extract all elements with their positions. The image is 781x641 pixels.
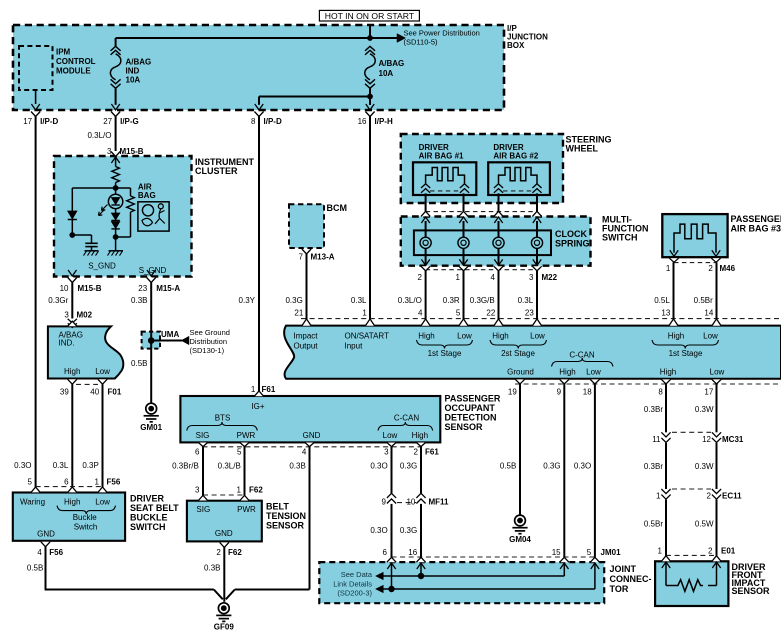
- svg-text:0.3W: 0.3W: [695, 462, 714, 471]
- svg-text:Ground: Ground: [507, 367, 534, 376]
- svg-text:1st Stage: 1st Stage: [669, 349, 703, 358]
- svg-text:EC11: EC11: [722, 491, 742, 500]
- cluster LED air bag lamp: [99, 188, 123, 216]
- steering-MFS inline connector: [421, 211, 542, 223]
- svg-text:0.5Br: 0.5Br: [644, 520, 663, 529]
- svg-text:High: High: [492, 331, 508, 340]
- svg-text:8: 8: [658, 388, 663, 397]
- svg-text:17: 17: [704, 388, 713, 397]
- svg-text:1: 1: [656, 491, 661, 500]
- svg-text:IPM: IPM: [56, 48, 71, 57]
- I/P junction box: [13, 24, 548, 110]
- svg-text:HOT IN ON OR START: HOT IN ON OR START: [325, 11, 415, 21]
- wire 0.5B UMA to GM01: [131, 283, 151, 404]
- svg-text:3: 3: [195, 485, 200, 494]
- svg-text:2: 2: [418, 273, 423, 282]
- svg-text:13: 13: [661, 309, 670, 318]
- svg-text:0.3B: 0.3B: [289, 462, 305, 471]
- SRSCM bottom pin 18: [583, 379, 600, 396]
- svg-text:BOX: BOX: [507, 41, 525, 50]
- junction dot at fuse2 top: [367, 35, 373, 41]
- svg-text:GF09: GF09: [214, 623, 235, 632]
- svg-text:SPRING: SPRING: [555, 239, 590, 249]
- svg-text:10A: 10A: [379, 69, 394, 78]
- svg-text:PASSENGER: PASSENGER: [445, 394, 501, 404]
- SRSCM 1st stage High Low: [417, 331, 473, 358]
- svg-text:(SD200-3): (SD200-3): [337, 589, 372, 598]
- svg-text:MF11: MF11: [429, 497, 450, 506]
- connector EC11 pins 1 2: [656, 489, 742, 500]
- SRSCM labels impact output: [294, 331, 319, 350]
- svg-text:2: 2: [707, 491, 712, 500]
- driver front impact sensor: [655, 561, 770, 606]
- SRSCM bottom pin 9: [557, 379, 569, 396]
- svg-text:21: 21: [294, 309, 303, 318]
- connector F62 top pins 3 1: [195, 485, 263, 500]
- svg-text:F62: F62: [249, 485, 263, 494]
- svg-text:See Ground: See Ground: [190, 328, 230, 337]
- svg-text:High: High: [412, 431, 428, 440]
- connector E01 pins 1 2: [658, 547, 736, 568]
- svg-text:ON/SATART: ON/SATART: [345, 331, 390, 340]
- svg-text:IG+: IG+: [251, 402, 264, 411]
- passenger air bag module: [662, 214, 781, 257]
- svg-text:0.3G: 0.3G: [285, 296, 302, 305]
- svg-text:0.3Br/B: 0.3Br/B: [172, 462, 199, 471]
- cluster pin 23 M15-A: [138, 270, 180, 293]
- svg-text:PWR: PWR: [237, 505, 256, 514]
- svg-text:12: 12: [702, 435, 711, 444]
- svg-text:GND: GND: [37, 530, 55, 539]
- svg-text:Buckle: Buckle: [73, 513, 98, 522]
- second S_GND label: [139, 266, 167, 275]
- clock spring wire x425.6: [425, 221, 427, 265]
- svg-text:0.3G/B: 0.3G/B: [470, 296, 495, 305]
- svg-text:1: 1: [95, 477, 100, 486]
- svg-text:A/BAG: A/BAG: [126, 58, 152, 67]
- svg-text:SENSOR: SENSOR: [266, 521, 305, 531]
- clock spring box: [414, 229, 590, 255]
- svg-text:BTS: BTS: [215, 414, 231, 423]
- SRSCM top connector line: [301, 318, 781, 320]
- wire 0.3Y pin8 to PODS IG+: [239, 117, 259, 392]
- svg-text:BUCKLE: BUCKLE: [130, 513, 168, 523]
- svg-text:IND.: IND.: [59, 339, 75, 348]
- svg-text:0.3L: 0.3L: [53, 461, 69, 470]
- svg-text:0.5B: 0.5B: [27, 564, 43, 573]
- buckle GND pin 4 F56: [37, 542, 63, 557]
- wire 0.3L M22 to SRSCM pin23: [518, 271, 537, 319]
- svg-text:M15-A: M15-A: [156, 284, 180, 293]
- svg-text:IND: IND: [126, 67, 140, 76]
- joint connector internal C-CAN Low link: [376, 564, 595, 593]
- driver air bag #2 squib box: [488, 143, 550, 195]
- svg-text:M22: M22: [542, 273, 558, 282]
- SRSCM top pin 22: [486, 309, 503, 326]
- connector M46 pins 1 2: [666, 258, 736, 273]
- svg-text:High: High: [559, 367, 575, 376]
- svg-text:0.3L/O: 0.3L/O: [87, 131, 111, 140]
- joint connector internal C-CAN High link: [376, 564, 565, 580]
- svg-text:1: 1: [456, 273, 461, 282]
- svg-text:1: 1: [658, 547, 663, 556]
- multi-function switch: [401, 215, 649, 266]
- cluster left branch diode: [68, 188, 116, 235]
- pin 16 I/P-H: [358, 104, 393, 126]
- svg-text:BAG: BAG: [138, 191, 156, 200]
- wire 0.3B BTS to GF09: [204, 547, 224, 602]
- connector 3 M02: [64, 310, 92, 327]
- connector M22 pins 2 1 4 3: [418, 259, 558, 282]
- wire 0.5Br M46 to SRSCM pin14: [694, 262, 717, 319]
- clock spring wire x498.5: [498, 221, 500, 265]
- UMA ground connector: [142, 328, 230, 355]
- clock spring wire x537: [536, 221, 538, 265]
- wire 0.3Br MC31 to EC11: [644, 443, 666, 489]
- svg-text:(SD130-1): (SD130-1): [190, 346, 225, 355]
- wire 0.3R M22 to SRSCM pin5: [443, 271, 464, 319]
- JM01 pin 16 entry: [416, 557, 425, 569]
- svg-text:1: 1: [666, 264, 671, 273]
- svg-text:3: 3: [64, 310, 69, 319]
- svg-text:6: 6: [383, 548, 388, 557]
- svg-text:S_GND: S_GND: [88, 261, 116, 270]
- SRSCM right 1st stage High Low: [652, 331, 719, 358]
- svg-text:MC31: MC31: [722, 435, 744, 444]
- wire 0.3L/O pin27 to cluster: [87, 117, 115, 152]
- svg-text:Low: Low: [383, 431, 398, 440]
- svg-text:High: High: [418, 331, 434, 340]
- cluster capacitor to S_GND: [72, 235, 98, 256]
- ground GF09: [214, 603, 235, 632]
- svg-text:5: 5: [456, 309, 461, 318]
- svg-text:0.3Br: 0.3Br: [644, 405, 663, 414]
- svg-text:0.3O: 0.3O: [14, 461, 31, 470]
- svg-text:See Power Distribution: See Power Distribution: [404, 29, 480, 38]
- svg-text:0.3L: 0.3L: [351, 296, 367, 305]
- buckle switch brace: [57, 506, 116, 514]
- svg-text:DETECTION: DETECTION: [445, 413, 497, 423]
- wire 0.3Br/B PODS SIG to BTS: [172, 446, 203, 495]
- svg-text:WHEEL: WHEEL: [566, 144, 599, 154]
- pin 27 I/P-G: [103, 104, 139, 126]
- SRSCM top pin 21: [294, 309, 311, 326]
- svg-text:DRIVER: DRIVER: [419, 143, 449, 152]
- svg-text:Switch: Switch: [74, 522, 98, 531]
- passenger occupant detection sensor: [180, 394, 500, 443]
- connector 1 F61 top: [251, 385, 276, 396]
- svg-text:0.3O: 0.3O: [370, 526, 387, 535]
- SRSCM bottom pin 19: [508, 379, 525, 396]
- svg-text:0.3W: 0.3W: [695, 405, 714, 414]
- svg-text:M02: M02: [77, 310, 93, 319]
- connector MC31 pins 11 12: [652, 432, 744, 444]
- svg-text:AIR BAG #3: AIR BAG #3: [731, 224, 781, 234]
- svg-text:C-CAN: C-CAN: [394, 414, 420, 423]
- svg-text:See Data: See Data: [341, 570, 373, 579]
- connector MF11 pins 9 10: [382, 493, 450, 506]
- svg-text:0.3L/B: 0.3L/B: [218, 462, 241, 471]
- svg-text:TENSION: TENSION: [266, 511, 306, 521]
- BCM: [289, 203, 347, 248]
- svg-text:8: 8: [251, 117, 256, 126]
- SRSCM top pin 5: [456, 309, 468, 326]
- wire 0.3O MF11 to JM01 pin6: [370, 504, 391, 557]
- svg-text:TOR: TOR: [610, 584, 629, 594]
- svg-text:9: 9: [557, 388, 562, 397]
- svg-text:3: 3: [529, 273, 534, 282]
- svg-text:Low: Low: [95, 498, 110, 507]
- svg-text:GND: GND: [303, 431, 321, 440]
- svg-text:18: 18: [583, 388, 592, 397]
- cluster resistor top: [112, 157, 120, 188]
- svg-text:JOINT: JOINT: [610, 564, 637, 574]
- svg-text:Waring: Waring: [20, 498, 45, 507]
- wire 0.5Br EC11 to E01: [644, 500, 666, 556]
- svg-text:0.5B: 0.5B: [500, 462, 516, 471]
- svg-text:Input: Input: [345, 341, 364, 350]
- wire 0.3B PODS GND to GF09: [226, 446, 310, 599]
- cluster node dot left: [69, 232, 75, 238]
- svg-text:0.3G: 0.3G: [543, 462, 560, 471]
- svg-text:1: 1: [251, 385, 256, 394]
- HOT IN ON OR START tag: [319, 10, 419, 21]
- wire 0.3W MC31 to EC11: [695, 443, 717, 489]
- svg-text:Distribution: Distribution: [190, 337, 228, 346]
- svg-text:CLOCK: CLOCK: [555, 229, 587, 239]
- wire 0.3L High to buckle: [53, 384, 73, 487]
- svg-text:GND: GND: [215, 529, 233, 538]
- svg-text:E01: E01: [721, 547, 736, 556]
- svg-text:5: 5: [237, 448, 242, 457]
- svg-text:F56: F56: [107, 477, 121, 486]
- svg-text:High: High: [64, 367, 80, 376]
- svg-text:SENSOR: SENSOR: [732, 586, 771, 596]
- svg-text:SEAT BELT: SEAT BELT: [130, 503, 179, 513]
- svg-text:CONNEC-: CONNEC-: [610, 574, 652, 584]
- belt tension sensor: [187, 501, 306, 542]
- svg-text:Impact: Impact: [294, 331, 319, 340]
- svg-text:0.3Br: 0.3Br: [644, 462, 663, 471]
- cluster diode 2: [111, 209, 119, 221]
- svg-text:0.5B: 0.5B: [131, 359, 147, 368]
- wire 0.5W EC11 to E01: [695, 500, 717, 556]
- svg-text:UMA: UMA: [161, 330, 179, 339]
- svg-text:Low: Low: [95, 367, 110, 376]
- A/BAG IND block: [48, 326, 123, 378]
- JM01 connector line: [392, 556, 595, 558]
- svg-text:17: 17: [23, 117, 32, 126]
- svg-text:F56: F56: [49, 548, 63, 557]
- cluster diode 3: [111, 222, 119, 238]
- svg-text:BCM: BCM: [327, 203, 348, 213]
- connector F56 top pins 5 6 1: [28, 477, 121, 492]
- SRSCM right High Low bottom: [660, 367, 725, 376]
- svg-text:14: 14: [704, 309, 713, 318]
- PODS BTS brace: [187, 422, 258, 431]
- svg-text:9: 9: [382, 497, 387, 506]
- wire squib column x537: [536, 193, 538, 211]
- svg-text:4: 4: [302, 448, 307, 457]
- svg-text:40: 40: [90, 388, 99, 397]
- svg-text:0.3B: 0.3B: [204, 564, 220, 573]
- svg-text:11: 11: [652, 435, 661, 444]
- wire 0.5B SRSCM ground to GM04: [500, 384, 520, 515]
- svg-text:Low: Low: [586, 367, 601, 376]
- IPM control module: [19, 46, 96, 104]
- SRSCM C-CAN brace: [507, 351, 613, 377]
- clock spring wire x463.5: [463, 221, 465, 265]
- svg-text:(SD110-5): (SD110-5): [404, 38, 439, 47]
- svg-text:PWR: PWR: [237, 431, 256, 440]
- svg-text:Low: Low: [457, 331, 472, 340]
- svg-text:10: 10: [406, 497, 415, 506]
- A/BAG IND top pin: [68, 321, 77, 326]
- svg-text:SWITCH: SWITCH: [130, 522, 166, 532]
- SRSCM top pin 23: [525, 309, 542, 326]
- svg-text:0.5L: 0.5L: [654, 296, 670, 305]
- svg-text:0.3L: 0.3L: [518, 296, 534, 305]
- svg-text:GM01: GM01: [140, 423, 162, 432]
- svg-text:23: 23: [138, 284, 147, 293]
- fuse A/BAG IND 10A: [110, 46, 151, 105]
- SRSCM top pin 1: [362, 309, 374, 326]
- passenger airbag igniter: [670, 224, 720, 256]
- SRSCM bottom pin 17: [704, 379, 721, 396]
- impact sensor resistor: [666, 562, 717, 591]
- svg-text:27: 27: [103, 117, 112, 126]
- svg-text:Link Details: Link Details: [333, 579, 372, 588]
- SRS control module bar: [284, 326, 781, 379]
- wire 0.3Br SRSCM pin8 to MC31: [644, 384, 666, 432]
- joint connector: [319, 562, 651, 603]
- instrument cluster: [54, 156, 254, 277]
- svg-text:2: 2: [708, 547, 713, 556]
- wire hot feed from top: [369, 25, 371, 38]
- junction dot at fuse2 bottom: [259, 94, 373, 105]
- SRSCM bottom connector line: [515, 383, 781, 385]
- svg-text:23: 23: [525, 309, 534, 318]
- svg-text:F62: F62: [228, 548, 242, 557]
- svg-text:CONTROL: CONTROL: [56, 57, 96, 66]
- see power distribution arrow: [397, 29, 480, 47]
- svg-text:2st Stage: 2st Stage: [501, 349, 535, 358]
- svg-text:F01: F01: [108, 388, 122, 397]
- svg-text:1st Stage: 1st Stage: [428, 349, 462, 358]
- connector 3 M15-B: [107, 147, 144, 163]
- wire 0.3O PODS Low via MF11: [370, 447, 391, 494]
- squib 1 igniter: [421, 168, 469, 193]
- svg-text:F61: F61: [262, 385, 276, 394]
- wire 0.3G PODS High via MF11: [400, 447, 421, 494]
- svg-text:AIR BAG #2: AIR BAG #2: [493, 152, 538, 161]
- svg-text:6: 6: [64, 477, 69, 486]
- svg-text:M15-B: M15-B: [78, 284, 102, 293]
- svg-text:0.3R: 0.3R: [443, 296, 460, 305]
- svg-text:4: 4: [418, 309, 423, 318]
- svg-text:SENSOR: SENSOR: [445, 422, 484, 432]
- clock spring coils: [420, 237, 543, 248]
- driver seat belt buckle switch: [13, 493, 179, 541]
- svg-text:0.5W: 0.5W: [695, 520, 714, 529]
- see data link details note: [333, 570, 373, 597]
- svg-text:High: High: [660, 367, 676, 376]
- ground GM04: [509, 515, 531, 544]
- wire 0.3Gr pin10 to M02: [48, 283, 72, 319]
- wire squib column x425.6: [425, 193, 427, 211]
- svg-text:DRIVER: DRIVER: [493, 143, 523, 152]
- wire 0.3G MF11 to JM01 pin16: [400, 504, 421, 557]
- pin 17 I/P-D: [23, 104, 58, 126]
- wire 0.3L pin16 to SRSCM pin1: [351, 117, 370, 320]
- svg-text:16: 16: [358, 117, 367, 126]
- svg-text:6: 6: [195, 448, 200, 457]
- svg-text:1: 1: [237, 485, 242, 494]
- svg-text:BELT: BELT: [266, 502, 289, 512]
- svg-text:1: 1: [362, 309, 367, 318]
- svg-text:0.3O: 0.3O: [370, 462, 387, 471]
- svg-text:2: 2: [413, 448, 418, 457]
- svg-text:M46: M46: [720, 264, 736, 273]
- svg-text:3: 3: [384, 448, 389, 457]
- steering wheel: [401, 134, 612, 203]
- svg-text:0.3P: 0.3P: [82, 461, 98, 470]
- wire 0.5L M46 to SRSCM pin13: [654, 262, 673, 319]
- svg-text:Low: Low: [710, 367, 725, 376]
- air bag warning icon: [138, 182, 169, 231]
- svg-text:GM04: GM04: [509, 535, 531, 544]
- SRSCM labels on/satart input: [345, 331, 390, 350]
- SRSCM top pin 14: [704, 309, 721, 326]
- svg-text:MODULE: MODULE: [56, 67, 91, 76]
- svg-text:2: 2: [216, 548, 221, 557]
- PODS pins 6 5 4 3 2 F61: [195, 443, 439, 457]
- A/BAG IND pins 39 40 F01: [60, 379, 122, 396]
- svg-text:Output: Output: [294, 341, 319, 350]
- SRSCM top pin 4: [418, 309, 430, 326]
- svg-text:Low: Low: [703, 331, 718, 340]
- svg-text:SIG: SIG: [196, 431, 210, 440]
- svg-text:5: 5: [28, 477, 33, 486]
- svg-text:High: High: [64, 498, 80, 507]
- svg-text:0.5Br: 0.5Br: [694, 296, 713, 305]
- pin 8 I/P-D: [251, 104, 282, 126]
- svg-text:16: 16: [408, 548, 417, 557]
- svg-text:SIG: SIG: [196, 505, 210, 514]
- cluster S_GND chassis ground: [88, 237, 123, 270]
- cluster right resistor branch: [116, 188, 135, 237]
- SRSCM 2st stage High Low: [490, 331, 547, 358]
- svg-text:AIR BAG #1: AIR BAG #1: [419, 152, 464, 161]
- wire 0.3G SRSCM C-CAN High to JM01 pin15: [543, 384, 564, 557]
- BTS GND pin 2 F62: [216, 542, 242, 557]
- wire 0.5B buckle to GF09: [27, 547, 223, 600]
- svg-text:OCCUPANT: OCCUPANT: [445, 403, 496, 413]
- svg-text:M13-A: M13-A: [311, 252, 335, 261]
- squib 2 igniter: [494, 168, 542, 193]
- wire 17 I/P-D to buckle switch Waring: [14, 117, 35, 488]
- svg-text:39: 39: [60, 388, 69, 397]
- svg-text:0.3G: 0.3G: [400, 462, 417, 471]
- svg-text:DRIVER: DRIVER: [130, 494, 165, 504]
- svg-text:PASSENGER: PASSENGER: [731, 214, 781, 224]
- wire 0.3W SRSCM pin17 to MC31: [695, 384, 717, 432]
- driver air bag #1 squib box: [413, 143, 476, 195]
- svg-text:JM01: JM01: [601, 548, 622, 557]
- svg-text:2: 2: [708, 264, 713, 273]
- svg-text:I/P-D: I/P-D: [40, 117, 58, 126]
- svg-text:High: High: [668, 331, 684, 340]
